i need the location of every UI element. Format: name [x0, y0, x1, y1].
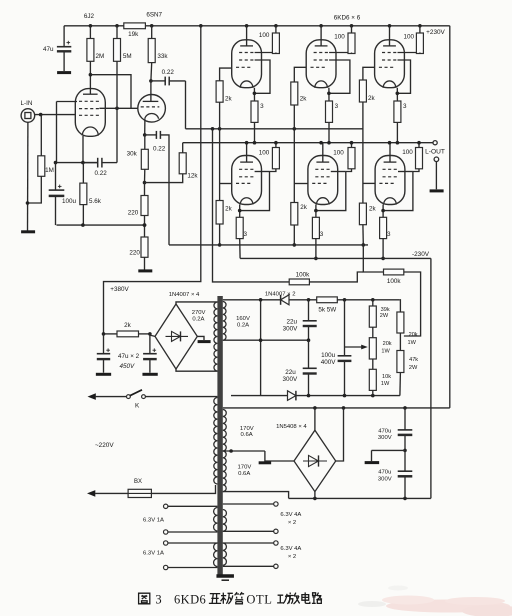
svg-text:100u: 100u [321, 352, 336, 359]
resistor 2k lower col2 [291, 203, 298, 226]
capacitor 0.22 (V1 stage) [83, 162, 98, 164]
V8 screen wire [398, 171, 413, 173]
V4 cathode lead [328, 88, 330, 101]
svg-text:0.2A: 0.2A [237, 323, 249, 329]
svg-text:6.3V 1A: 6.3V 1A [143, 551, 164, 557]
transformer winding 170V b (right) [223, 451, 226, 492]
capacitor 22u 300V lower [308, 340, 310, 368]
ground center tap [264, 451, 266, 462]
svg-text:1W: 1W [408, 340, 417, 346]
svg-text:1N4007 × 2: 1N4007 × 2 [265, 291, 296, 297]
wire output rail [183, 142, 433, 144]
resistor 100 screen (V7) [351, 143, 353, 148]
svg-text:2M: 2M [96, 53, 105, 60]
svg-text:20k: 20k [383, 341, 392, 347]
transformer core ground [216, 574, 234, 577]
svg-text:BX: BX [134, 479, 142, 485]
svg-text:450V: 450V [119, 363, 135, 370]
diode 1N4007 D2 [288, 391, 296, 401]
V7 cathode arc [317, 198, 330, 205]
svg-text:220: 220 [128, 210, 139, 217]
filament terminals left [164, 504, 168, 508]
svg-text:470u: 470u [378, 470, 391, 476]
svg-text:2k: 2k [124, 322, 132, 329]
V1 plate [83, 93, 98, 95]
ground filter midpoint [365, 461, 380, 464]
resistor 5.6k cathode [82, 163, 84, 184]
svg-text:2k: 2k [225, 205, 233, 212]
resistor 3 cathode (V5) [394, 101, 401, 122]
transformer winding primary (left) [214, 398, 218, 485]
resistor 19k (series in rail) [124, 23, 146, 29]
capacitor 100u 400V [344, 300, 346, 356]
wire V8 cathode to bias line [382, 239, 384, 259]
svg-text:170V: 170V [238, 464, 252, 470]
svg-text:2k: 2k [225, 95, 233, 102]
svg-text:300V: 300V [378, 435, 392, 441]
svg-text:19k: 19k [128, 31, 139, 38]
wire bridge2 right to DC line [336, 408, 344, 461]
svg-text:6KD6 × 6: 6KD6 × 6 [334, 14, 361, 21]
wire 160V winding return [223, 339, 309, 341]
V3 beam plate return wire [254, 60, 270, 93]
wire switch to primary [145, 396, 217, 398]
node dots on top rail [89, 24, 93, 28]
resistor 100 screen (V3) [275, 26, 277, 33]
bridge rectifier 1N4007 x 4 [155, 304, 197, 369]
wire 100k tap feed [213, 129, 290, 282]
svg-text:30k: 30k [127, 151, 138, 158]
transformer filament winding 6.3V4A a (right) [223, 510, 227, 532]
wire 170V top to DC line [223, 407, 450, 409]
svg-text:3: 3 [244, 231, 248, 238]
wire right bus from +230V [449, 26, 451, 408]
svg-text:K: K [135, 402, 140, 409]
V6 screen wire [255, 171, 270, 173]
caption: 管 [235, 592, 245, 604]
V4 plate [315, 45, 328, 47]
svg-text:300V: 300V [378, 477, 392, 483]
wire bottom return first stage [57, 224, 145, 226]
capacitor 47u x 2 450V (a) [103, 334, 105, 354]
svg-text:1W: 1W [381, 381, 390, 387]
V5 beam plate return wire [397, 60, 410, 93]
svg-text:× 2: × 2 [288, 554, 296, 560]
svg-text:300V: 300V [283, 376, 299, 383]
svg-text:0.6A: 0.6A [238, 471, 250, 477]
fuse BX [128, 489, 151, 497]
capacitor 470u 300V lower [404, 450, 406, 471]
terminal L-OUT ground side [434, 157, 439, 162]
svg-text:2W: 2W [380, 313, 389, 319]
resistor 1M grid leak [40, 115, 42, 156]
resistor 20k 1W left [372, 327, 374, 338]
wire -230V drop [430, 258, 432, 498]
svg-text:20k: 20k [409, 332, 418, 338]
svg-text:100k: 100k [387, 278, 402, 285]
pink smudge bottom right (scan artifact) [382, 596, 512, 616]
wire bridge1 AC top to 270V winding [176, 302, 217, 304]
svg-text:270V: 270V [192, 310, 206, 316]
wire grid tap lower tube col1 [220, 183, 232, 185]
ground input [21, 230, 35, 233]
svg-text:1W: 1W [381, 348, 390, 354]
capacitor 470u 300V upper [404, 408, 406, 430]
resistor 3 cathode (V6) [236, 217, 243, 238]
V5 cathode arc [383, 81, 396, 88]
svg-text:22u: 22u [287, 318, 298, 325]
wire 160V rectifier line [223, 299, 281, 301]
svg-text:100: 100 [333, 149, 344, 156]
V5 cathode lead [396, 88, 398, 101]
wire bias network bottom [231, 395, 288, 397]
transformer filament winding 6.3V1A b (left) [214, 543, 218, 566]
svg-text:100: 100 [259, 149, 270, 156]
tube V7 6KD6 envelope [308, 156, 338, 205]
V2 plate [143, 100, 159, 102]
capacitor 22u 300V upper [308, 300, 310, 321]
wire -C rail (from driver) [169, 244, 368, 246]
resistor 2k upper col2 [294, 67, 306, 82]
capacitor 47u input decoupling [63, 26, 65, 47]
svg-text:100: 100 [403, 34, 414, 41]
V7 cathode lead [315, 205, 317, 218]
svg-text:6J2: 6J2 [84, 13, 95, 20]
svg-text:6KD6: 6KD6 [174, 593, 206, 607]
svg-text:2W: 2W [409, 365, 418, 371]
wire left branch of bias network [260, 300, 262, 396]
caption: 极 [221, 593, 233, 604]
svg-text:100k: 100k [296, 272, 311, 279]
svg-text:3: 3 [320, 231, 324, 238]
mains arrow lower [87, 490, 95, 497]
wire 170V center tap [223, 450, 265, 452]
V4 screen wire to 100 ohm [329, 52, 351, 54]
wire 170V bottom [223, 492, 289, 499]
wire bridge1 DC+ to node [150, 335, 155, 336]
V3 grids (dashed) [239, 52, 254, 54]
V8 plate [384, 161, 397, 163]
svg-text:10k: 10k [382, 374, 391, 380]
resistor 2M [89, 26, 91, 39]
ground 47u b [142, 373, 157, 376]
filament terminals right [274, 502, 278, 506]
resistor 2k lower col3 [359, 203, 366, 225]
V5 screen wire to 100 ohm [398, 52, 420, 54]
resistor 33k plate load [151, 26, 153, 39]
wire V2 cathode [144, 119, 146, 135]
ground L-OUT [430, 189, 444, 192]
svg-text:+380V: +380V [110, 286, 129, 293]
caption: 放 [287, 593, 300, 605]
V6 plate [240, 161, 253, 163]
resistor 3 cathode (V8) [380, 217, 387, 238]
V5 grids (dashed) [382, 52, 397, 54]
svg-text:47u: 47u [43, 46, 54, 53]
V6 grids (dashed) [239, 168, 254, 170]
resistor 2k lower col1 [216, 201, 223, 225]
bias adjust arrow to 20k [345, 346, 365, 348]
transformer winding 270V (left top) [214, 302, 217, 371]
svg-text:100: 100 [402, 149, 413, 156]
svg-text:6SN7: 6SN7 [146, 12, 162, 19]
resistor 220 lower [141, 237, 148, 257]
resistor 220 upper [144, 183, 146, 196]
wire jack to tube V1 grid [35, 114, 76, 116]
V5 plate [383, 45, 396, 47]
resistor 3 cathode (V4) [326, 101, 333, 122]
svg-text:100: 100 [334, 33, 345, 40]
transformer winding 160V (right top) [223, 302, 226, 341]
svg-text:0.2A: 0.2A [192, 316, 204, 322]
V8 cathode lead [382, 205, 384, 218]
tube V1 6J2 envelope [75, 89, 105, 137]
capacitor 0.22 coupling (to lower network) [145, 134, 157, 136]
terminal L-OUT hot [433, 141, 437, 145]
tube V8 6KD6 envelope [375, 156, 405, 205]
wire B+ top rail [64, 25, 124, 27]
capacitor 100u cathode bypass [55, 163, 57, 191]
svg-text:160V: 160V [236, 316, 250, 322]
wire midpoint to ground [372, 449, 406, 451]
V4 cathode arc [315, 81, 328, 88]
wire bridge1 DC- to ground [197, 336, 204, 340]
V7 screen wire [331, 171, 346, 173]
wire +380V feed (from rail down) [104, 26, 201, 334]
ground under 220 [138, 269, 152, 272]
V2 cathode arc [145, 113, 159, 118]
caption: 电 [302, 592, 310, 603]
svg-text:1M: 1M [45, 167, 54, 174]
wire upper grid bus [186, 128, 363, 130]
capacitor 47u x 2 450V (b) [149, 334, 151, 354]
resistor 30k [144, 135, 146, 149]
ground 47u a [96, 373, 111, 376]
resistor 39k 2W [372, 300, 374, 306]
caption: 图 [139, 593, 150, 604]
svg-text:3: 3 [260, 103, 264, 110]
svg-text:12k: 12k [187, 173, 198, 180]
svg-text:1N4007 × 4: 1N4007 × 4 [169, 292, 200, 298]
svg-text:220: 220 [129, 250, 140, 257]
V3 plate [240, 45, 253, 47]
V1 cathode heater arc [82, 127, 98, 136]
transformer core [217, 296, 222, 575]
wire grid tap lower tube col2 [294, 183, 308, 185]
mains arrow upper [88, 393, 96, 400]
svg-text:100u: 100u [62, 198, 77, 205]
svg-text:5k 5W: 5k 5W [318, 306, 336, 313]
svg-text:2k: 2k [369, 205, 377, 212]
svg-text:47u × 2: 47u × 2 [118, 353, 140, 360]
input jack L-IN [21, 109, 35, 123]
svg-text:2k: 2k [300, 95, 308, 102]
svg-text:L-IN: L-IN [21, 100, 33, 107]
svg-text:47k: 47k [409, 357, 418, 363]
wire grid tap lower tube col3 [363, 182, 375, 184]
V3 cathode arc [240, 81, 253, 88]
wire cathode node V1 [56, 162, 98, 164]
resistor 12k [182, 143, 184, 153]
svg-text:1N5408 × 4: 1N5408 × 4 [276, 424, 307, 430]
resistor 2k upper col3 [363, 67, 375, 80]
svg-text:6.3V 4A: 6.3V 4A [280, 512, 301, 518]
V3 screen wire to 100 ohm [255, 52, 276, 54]
svg-text:6.3V 1A: 6.3V 1A [143, 517, 164, 523]
wire coupling cap to grid bus [185, 81, 187, 129]
resistor 3 cathode (V3) [251, 101, 258, 122]
wire fuse to primary [151, 485, 215, 493]
wire cathode bias line [240, 257, 431, 259]
svg-text:5.6k: 5.6k [89, 198, 102, 205]
gray smudge near caption [358, 586, 408, 608]
V4 beam plate return wire [329, 60, 350, 93]
svg-text:3: 3 [155, 593, 161, 607]
svg-text:+230V: +230V [426, 29, 445, 36]
wire V7 cathode to bias line [315, 239, 317, 259]
wire bridge2 AC top [314, 408, 316, 430]
svg-text:2k: 2k [368, 95, 376, 102]
wire V1 cathode [82, 136, 84, 163]
bridge rectifier 1N5408 x 4 [294, 430, 336, 491]
wire bridge1 AC bottom to 270V winding [176, 369, 217, 371]
resistor 100 screen (V5) [419, 26, 421, 33]
ground for 47u [57, 71, 71, 74]
svg-text:22u: 22u [285, 369, 296, 376]
V8 cathode arc [384, 198, 397, 205]
svg-text:0.22: 0.22 [94, 170, 107, 177]
svg-text:0.22: 0.22 [162, 69, 175, 76]
tube V3 6KD6 envelope [232, 40, 262, 88]
resistor 3 cathode (V7) [312, 217, 319, 238]
caption: 路 [312, 593, 322, 604]
wire V1 grid return [57, 101, 78, 103]
svg-text:OTL: OTL [246, 593, 272, 607]
caption: 功 [277, 594, 291, 604]
wire negative return line [289, 497, 431, 499]
svg-text:-230V: -230V [412, 251, 430, 258]
svg-text:470u: 470u [378, 428, 391, 434]
svg-text:× 2: × 2 [288, 520, 296, 526]
svg-text:3: 3 [387, 231, 391, 238]
resistor 5M [116, 26, 118, 39]
V7 plate [316, 161, 329, 163]
svg-text:300V: 300V [283, 326, 299, 333]
diode 1N4007 D1 [280, 295, 282, 305]
resistor 100 screen (V4) [351, 26, 353, 33]
svg-text:L-OUT: L-OUT [425, 149, 445, 156]
svg-text:0.6A: 0.6A [241, 432, 253, 438]
resistor 100 screen (V6) [275, 143, 277, 148]
V7 grids (dashed) [315, 168, 330, 170]
svg-text:~220V: ~220V [95, 442, 114, 449]
resistor 20k 1W right [399, 300, 402, 312]
V6 cathode lead [239, 205, 241, 218]
tube V4 6KD6 envelope [306, 40, 336, 88]
tube V2 6SN7 envelope [138, 95, 166, 123]
resistor 2k upper col1 [220, 68, 232, 81]
resistor 47k 2W [397, 351, 404, 373]
svg-text:33k: 33k [157, 53, 168, 60]
tube V5 6KD6 envelope [375, 40, 405, 88]
resistor 2k filter [104, 333, 118, 335]
V6 cathode arc [240, 198, 253, 205]
wire bridge2 left to center tap node [265, 460, 294, 462]
caption: 五 [209, 594, 221, 604]
V2 grid (dashed) [141, 106, 160, 108]
V4 grids (dashed) [314, 52, 329, 54]
svg-text:0.22: 0.22 [153, 146, 166, 153]
resistor 100k (bias divider) [363, 245, 383, 272]
resistor 5k 5W [317, 297, 338, 303]
wire bridge2 AC bottom [314, 492, 316, 499]
transformer winding 170V a (right) [223, 410, 226, 452]
svg-text:100: 100 [259, 32, 270, 39]
wire V6 cathode to bias line [239, 239, 241, 259]
svg-text:400V: 400V [321, 359, 337, 366]
svg-text:5M: 5M [123, 53, 132, 60]
resistor 100 screen (V8) [418, 143, 420, 148]
V1 grids (dashed) [79, 100, 101, 102]
wire jack sleeve to ground [27, 122, 29, 231]
tube V6 6KD6 envelope [232, 156, 262, 205]
wire V1 plate to V2 grid [90, 75, 131, 109]
V8 grids (dashed) [383, 168, 398, 170]
svg-text:2k: 2k [300, 204, 308, 211]
svg-text:3: 3 [335, 103, 339, 110]
transformer filament winding 6.3V4A b (right) [223, 543, 227, 565]
transformer filament winding 6.3V1A a (left) [214, 508, 218, 531]
resistor 10k 1W [372, 359, 374, 369]
capacitor 0.22 coupling (to upper grids) [151, 80, 165, 82]
resistor 100k (grid bus to bias) [289, 279, 309, 285]
switch K [126, 395, 130, 399]
V3 cathode lead [253, 88, 255, 101]
svg-text:6.3V 4A: 6.3V 4A [280, 546, 301, 552]
wire L-OUT return to ground [435, 162, 437, 190]
svg-text:3: 3 [403, 103, 407, 110]
